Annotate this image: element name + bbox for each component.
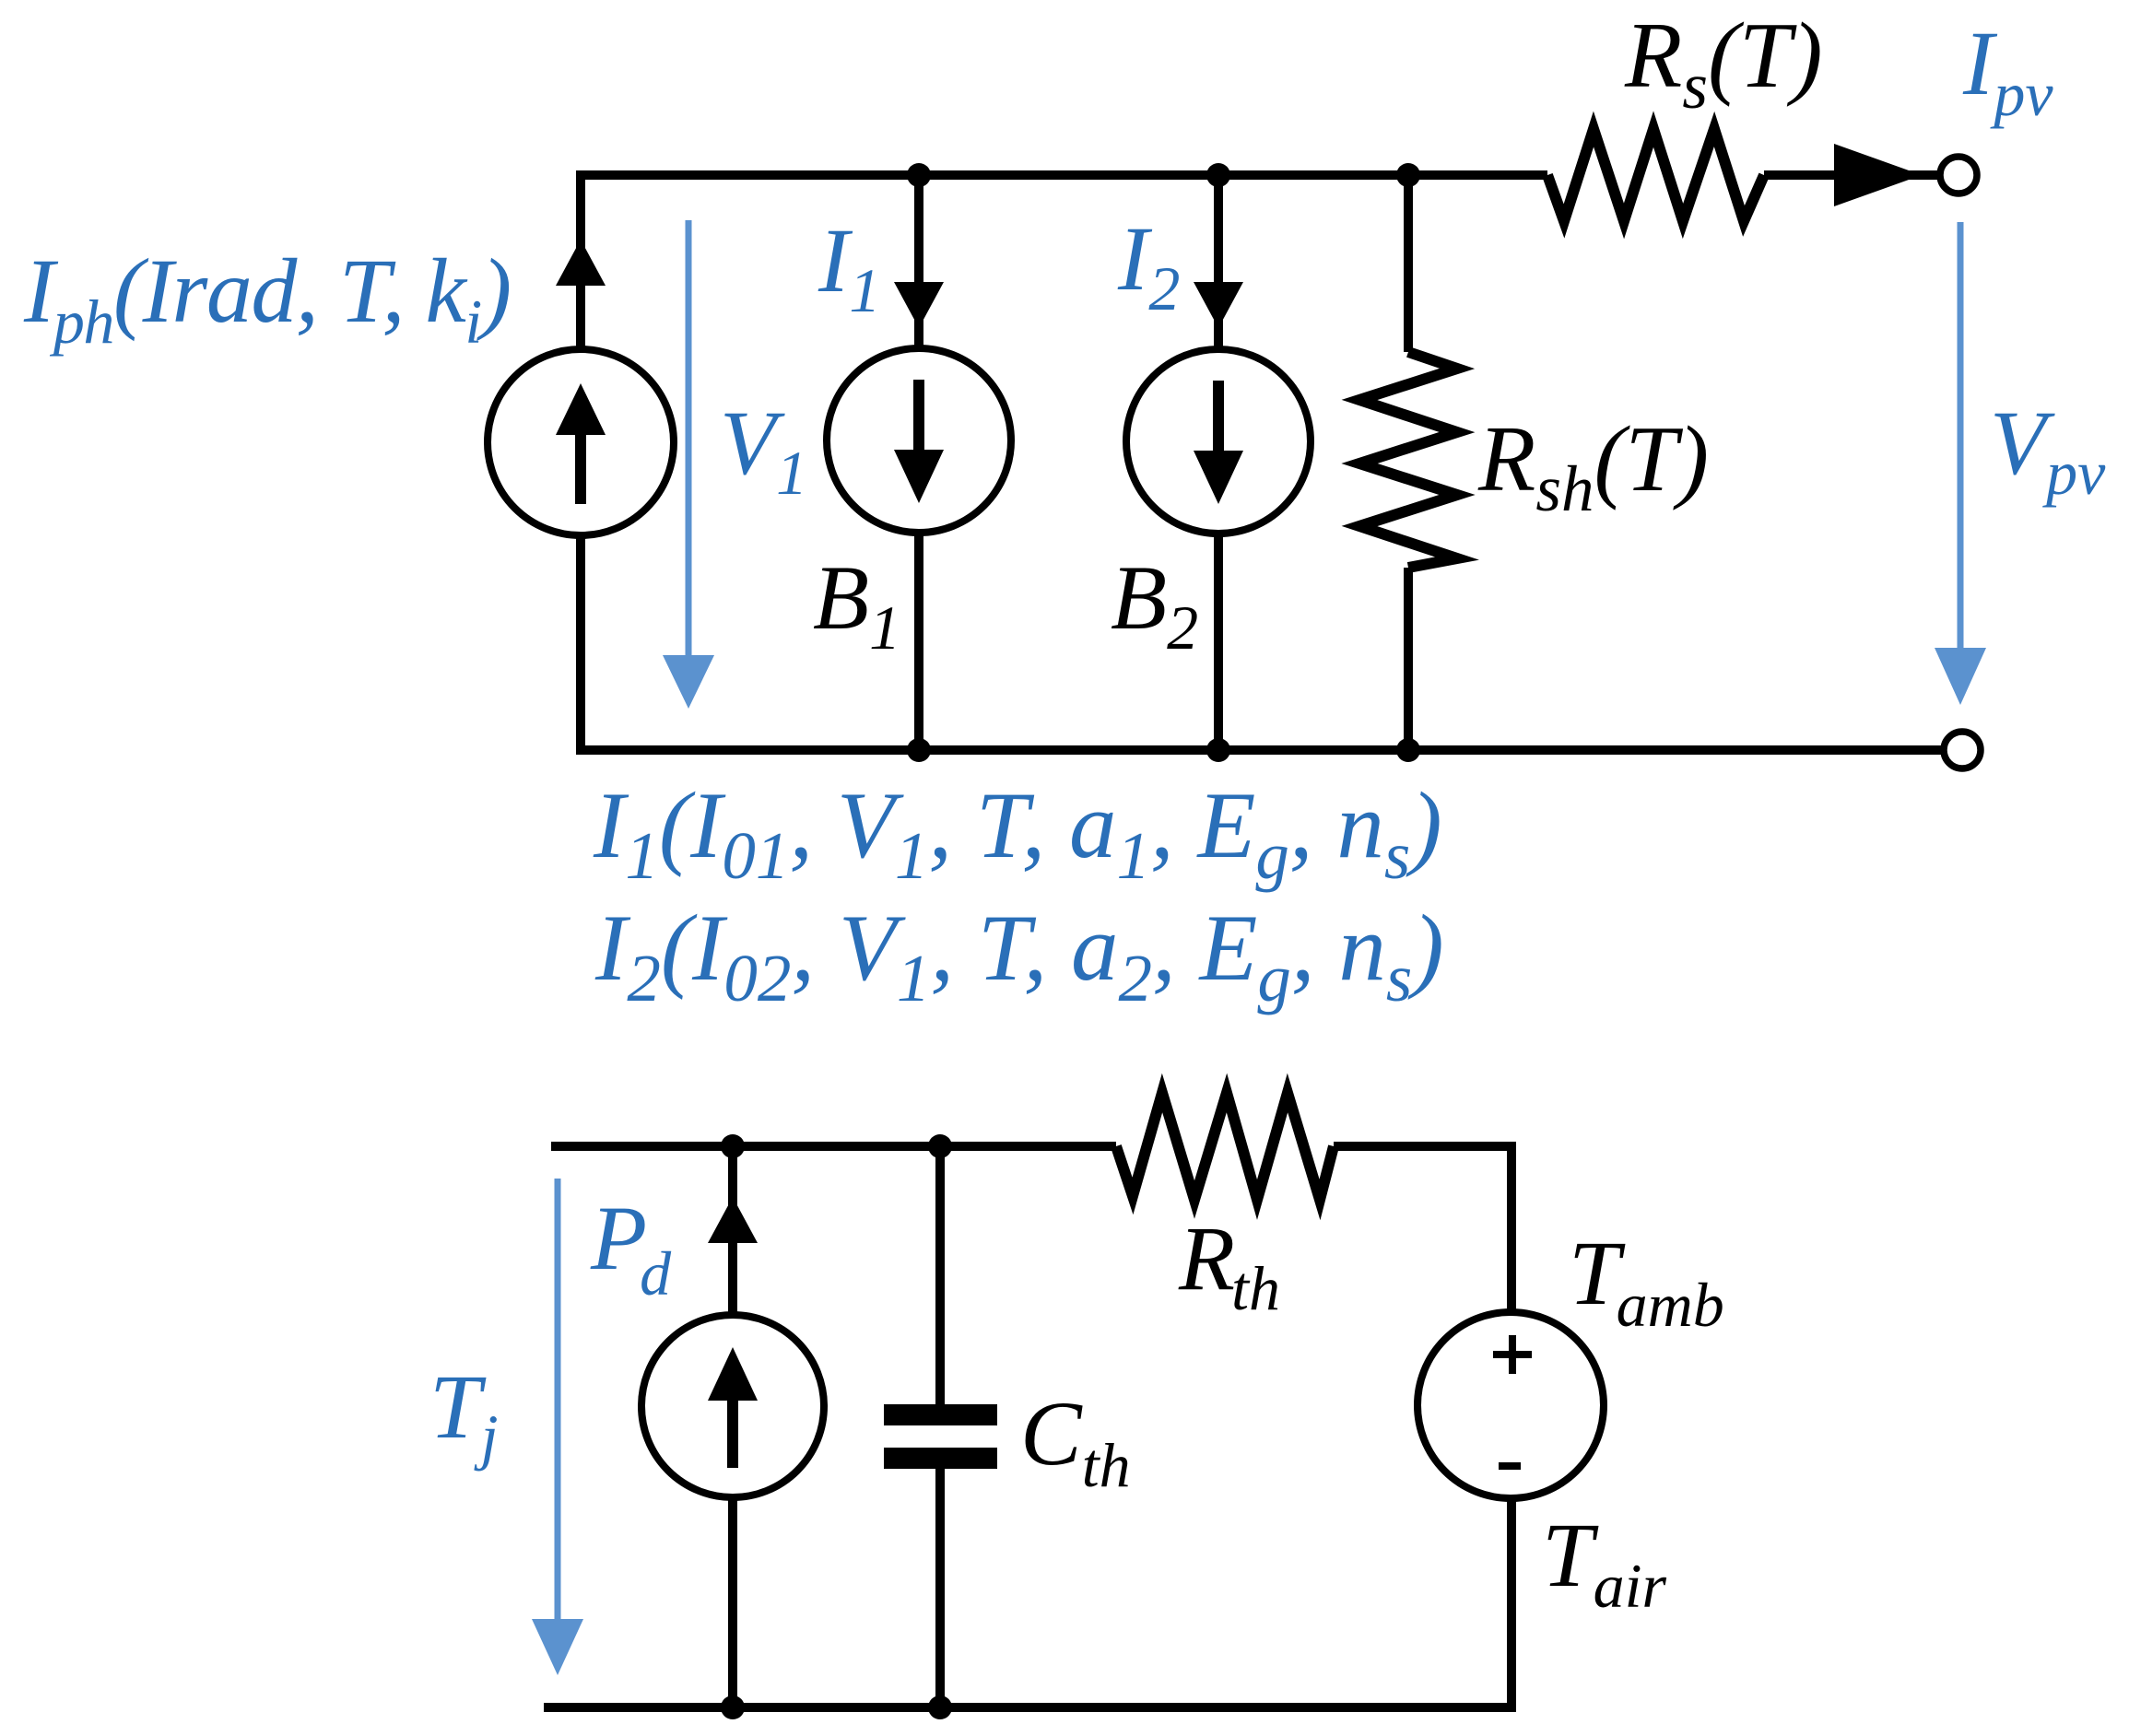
wire from Rs to output terminal bbox=[1764, 170, 1940, 180]
voltage arrow Vpv (blue, downward) bbox=[1958, 222, 1964, 651]
node dot B1 top bbox=[907, 163, 931, 187]
svg-text:I1(I01, V1, T, a1, Eg, ns): I1(I01, V1, T, a1, Eg, ns) bbox=[593, 773, 1442, 893]
wire Rsh branch lower bbox=[1404, 568, 1413, 750]
wire from Rth to right corner bbox=[1334, 1142, 1516, 1151]
node dot B2 top bbox=[1206, 163, 1230, 187]
Tamb plus sign bbox=[1493, 1335, 1532, 1374]
Tamb minus sign bbox=[1499, 1462, 1521, 1470]
current source B1 circle bbox=[827, 348, 1011, 533]
svg-text:I2(I02, V1, T, a2, Eg, ns): I2(I02, V1, T, a2, Eg, ns) bbox=[594, 896, 1444, 1015]
resistor Rs(T) horizontal zigzag bbox=[1547, 129, 1764, 221]
voltage source Tamb circle bbox=[1417, 1312, 1604, 1498]
Iph source internal arrowhead bbox=[556, 383, 606, 435]
wire Pd branch lower bbox=[728, 1497, 737, 1707]
svg-text:Rsh(T): Rsh(T) bbox=[1477, 407, 1709, 525]
node dot Cth top bbox=[928, 1134, 952, 1158]
temperature arrow Tj (blue, downward) bbox=[555, 1179, 561, 1622]
capacitor Cth bottom plate bbox=[884, 1448, 997, 1469]
current arrowhead on B2 branch (pointing down) bbox=[1194, 282, 1243, 328]
node dot Cth bottom bbox=[928, 1695, 952, 1719]
current source Pd circle bbox=[641, 1315, 824, 1497]
wire thermal top bus bbox=[551, 1142, 1116, 1151]
power arrowhead on Pd branch (pointing up) bbox=[708, 1197, 758, 1243]
resistor Rth horizontal zigzag bbox=[1116, 1093, 1334, 1200]
wire right branch lower bbox=[1507, 1498, 1516, 1712]
capacitor Cth top plate bbox=[884, 1404, 997, 1425]
wire B2 branch upper bbox=[1214, 175, 1223, 346]
current arrowhead Ipv (pointing right) bbox=[1834, 144, 1922, 206]
node dot B2 bottom bbox=[1206, 738, 1230, 762]
resistor Rsh(T) vertical zigzag bbox=[1359, 352, 1457, 568]
current source B2 circle bbox=[1126, 349, 1311, 534]
output terminal bottom (-) bbox=[1944, 732, 1981, 768]
node dot Rsh top bbox=[1396, 163, 1420, 187]
wire thermal bottom bus bbox=[544, 1703, 1516, 1712]
output terminal top (+) bbox=[1940, 157, 1977, 194]
B2 internal arrow shaft bbox=[1213, 381, 1224, 451]
node dot Rsh bottom bbox=[1396, 738, 1420, 762]
wire left branch upper segment bbox=[576, 170, 585, 350]
wire B1 branch upper bbox=[914, 175, 923, 346]
voltage arrow V1 (blue, downward) bbox=[686, 220, 692, 658]
wire Pd branch upper bbox=[728, 1146, 737, 1315]
current source Iph circle bbox=[488, 349, 674, 535]
current arrowhead on B1 branch (pointing down) bbox=[894, 282, 944, 328]
node dot Pd bottom bbox=[721, 1695, 745, 1719]
wire top bus (node between Iph, B1, B2, Rsh and Rs) bbox=[576, 170, 1547, 180]
wire right branch upper (to Tamb source) bbox=[1507, 1142, 1516, 1312]
Iph source internal arrow shaft bbox=[575, 431, 586, 504]
Pd internal arrow shaft bbox=[727, 1393, 738, 1468]
B1 internal arrow shaft bbox=[913, 380, 924, 450]
B1 internal arrowhead bbox=[894, 450, 944, 503]
Pd internal arrowhead bbox=[708, 1347, 758, 1401]
wire B2 branch lower bbox=[1214, 534, 1223, 750]
wire Cth branch upper bbox=[935, 1146, 945, 1404]
node dot B1 bottom bbox=[907, 738, 931, 762]
current arrowhead on Iph branch (pointing up) bbox=[556, 240, 606, 286]
wire Cth branch lower bbox=[935, 1469, 945, 1707]
wire bottom bus (bottom node of top circuit) bbox=[576, 745, 1944, 755]
wire Rsh branch upper bbox=[1404, 175, 1413, 352]
svg-text:Rs(T): Rs(T) bbox=[1624, 4, 1823, 123]
wire left branch lower segment bbox=[576, 534, 585, 750]
wire B1 branch lower bbox=[914, 533, 923, 750]
node dot Pd top bbox=[721, 1134, 745, 1158]
B2 internal arrowhead bbox=[1194, 451, 1243, 504]
